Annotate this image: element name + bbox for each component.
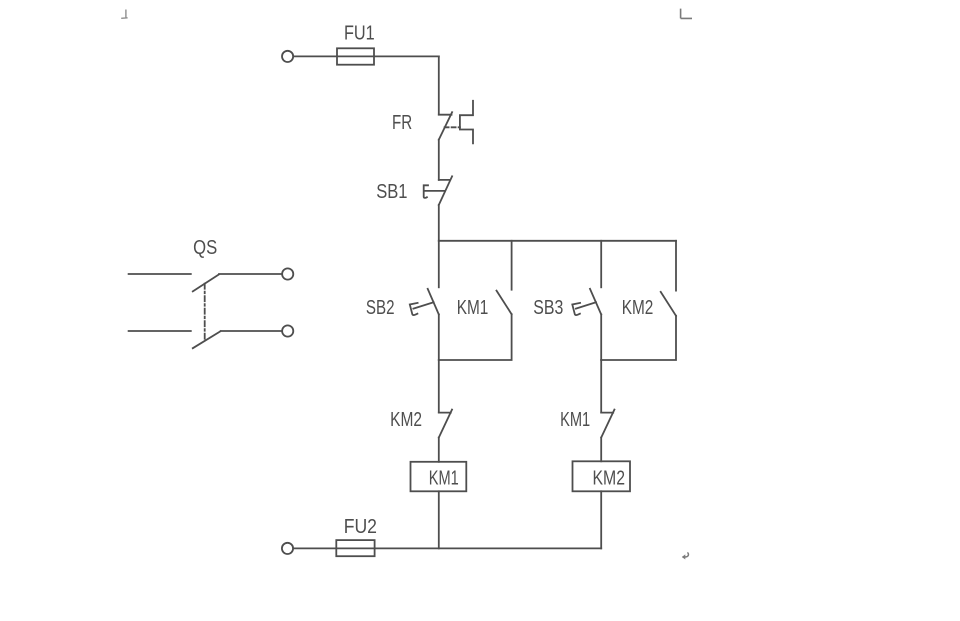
switch QS pole 2 [129,331,282,348]
contact KM2 auxiliary (NO hold-in) [661,292,676,316]
coil KM2 [573,461,631,491]
node: top bus [439,240,676,242]
wire [600,241,602,287]
wire [439,314,512,360]
wire [600,360,602,412]
wire [293,547,601,549]
wire [438,56,440,114]
terminal N (bottom supply) [282,543,293,554]
svg-text:KM2: KM2 [622,297,654,319]
wire [438,438,440,462]
wire [600,438,602,462]
svg-text:FR: FR [392,112,412,134]
svg-text:KM1: KM1 [560,409,590,431]
svg-text:KM2: KM2 [390,409,422,431]
svg-text:KM2: KM2 [593,468,626,490]
terminal QS-1 [282,268,293,279]
terminal QS-2 [282,325,293,336]
wire [600,491,602,548]
svg-text:KM1: KM1 [457,297,489,319]
FR trip element [460,101,473,144]
wire [438,314,440,360]
FR linkage (dash-dot) [445,126,460,128]
svg-text:KM1: KM1 [429,468,459,490]
svg-text:SB2: SB2 [366,297,395,319]
switch QS pole 1 [129,274,282,291]
wire [438,241,440,287]
SB3 button cap [572,302,596,315]
SB2 button cap [410,302,434,315]
fuse FU2 [336,540,374,556]
wire [438,140,440,180]
contact KM1 auxiliary (NO hold-in) [497,291,512,315]
pushbutton SB2 (NO start fwd) [428,289,439,315]
svg-text:FU1: FU1 [344,22,375,44]
SB1 button cap [424,185,445,198]
wire [675,241,677,291]
thermal relay NC contact FR [439,112,452,140]
wire [601,316,676,360]
coil KM1 [411,462,467,492]
fuse FU1 [337,48,374,64]
contact KM1 NC interlock [601,410,614,438]
wire [511,241,513,290]
contact KM2 NC interlock [439,410,452,438]
terminal L (top supply) [282,51,293,62]
pushbutton SB1 (NC stop) [439,176,452,205]
wire [438,205,440,241]
wire [293,55,439,57]
QS mechanical linkage (dash-dot) [204,284,206,340]
pushbutton SB3 (NO start rev) [590,289,601,315]
wire [438,491,440,548]
svg-text:FU2: FU2 [344,516,377,538]
wire [600,314,602,360]
svg-text:SB3: SB3 [533,297,563,319]
wire [438,360,440,412]
svg-text:QS: QS [193,237,217,259]
svg-text:SB1: SB1 [376,181,407,203]
